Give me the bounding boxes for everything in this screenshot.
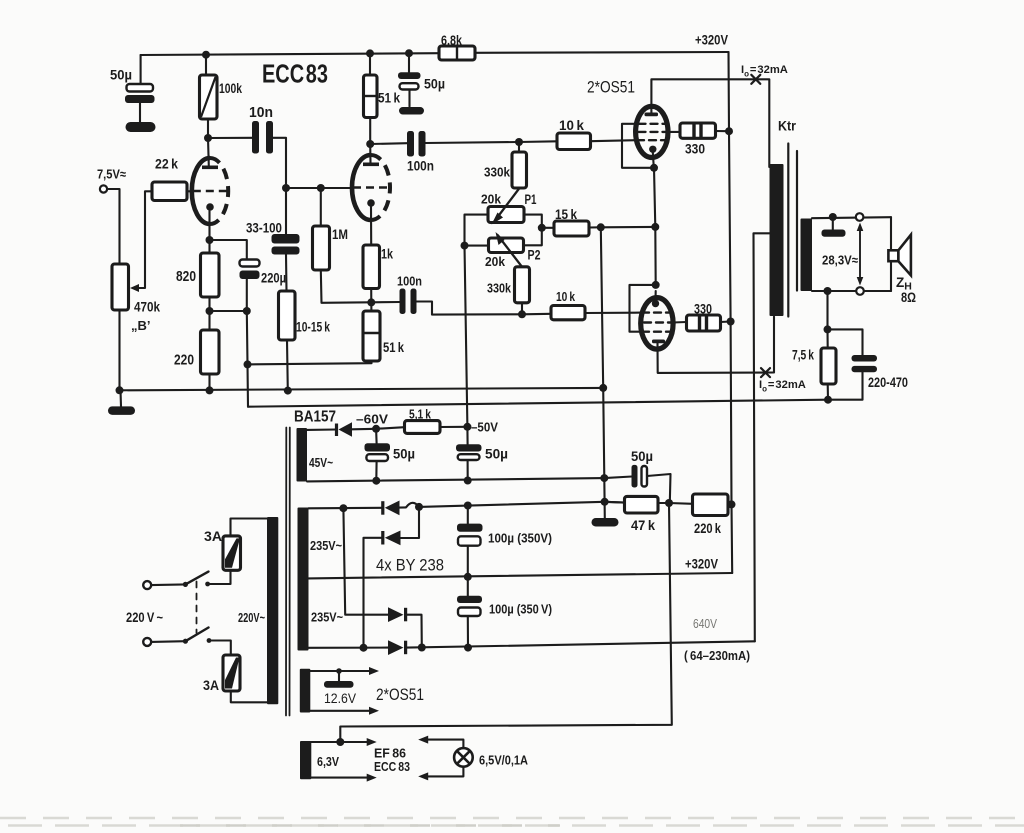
node node P bracket: [461, 242, 469, 250]
mains terminal lower: [143, 638, 151, 646]
svg-text:1k: 1k: [381, 247, 393, 262]
resistor 10-15k: [279, 291, 296, 340]
wire wire bracket to 15k: [542, 227, 554, 229]
diode D1 BY238: [381, 501, 384, 515]
wire wire screen to 330-2: [673, 321, 687, 324]
potentiometer P2 20k: [489, 238, 524, 253]
wire wire 330-2 to supply: [721, 320, 731, 323]
svg-text:330: 330: [685, 141, 705, 157]
svg-text:50µ: 50µ: [631, 448, 653, 464]
diode BA157: [335, 424, 338, 437]
wire wire 220u node down to feedback: [246, 311, 249, 364]
wire wire 330k-2 to node: [521, 303, 523, 315]
capacitor 33-100 plate B: [272, 247, 300, 255]
node node feedback takeoff: [244, 360, 252, 368]
svg-text:6,3V: 6,3V: [317, 754, 339, 769]
node node 220u junction: [243, 307, 251, 315]
wire wire 10k-2 to grid lower OS51: [585, 312, 642, 314]
svg-text:100n: 100n: [397, 275, 422, 289]
wire wire 1k bottom: [370, 289, 372, 303]
wire wire cathode junction down: [654, 227, 657, 285]
wire wire 10k-1 to grid upper OS51: [591, 140, 638, 141]
wire bracket P1-P2 left: [465, 215, 489, 246]
capacitor 100u-2 top plate: [457, 596, 482, 603]
svg-text:47 k: 47 k: [631, 518, 655, 533]
node node -60V: [372, 425, 380, 433]
svg-text:ECC 83: ECC 83: [262, 59, 328, 89]
svg-text:220-470: 220-470: [868, 375, 908, 390]
strap 12,6V bar: [324, 681, 354, 688]
node anode node V2: [366, 140, 374, 148]
lower OS51 beam dash: [642, 331, 671, 333]
secondary top terminal: [856, 213, 864, 221]
node node 15k right: [597, 223, 605, 231]
pot 470k wiper arrow: [130, 284, 139, 292]
node node secondary bottom: [824, 287, 832, 295]
winding 6,3V bar: [300, 741, 311, 779]
wire wire secondary to 7,5k node: [826, 291, 828, 329]
wire secondary top wire: [812, 217, 891, 218]
wire top supply rail left segment: [141, 53, 439, 55]
wire wire input to pot: [107, 189, 119, 265]
svg-text:Ktr: Ktr: [778, 119, 797, 134]
svg-text:330k: 330k: [487, 282, 511, 296]
wire wire upper anode up and right: [651, 79, 769, 167]
wire wire 7,5k top: [826, 329, 828, 348]
wire wire 15k to junction: [589, 226, 601, 228]
svg-text:220V~: 220V~: [238, 611, 265, 625]
mains core line 1: [285, 428, 287, 716]
ground below 50u-2: [399, 107, 424, 115]
node node feedback right: [824, 396, 832, 404]
resistor 15k: [554, 221, 589, 236]
node node 1M top: [317, 184, 325, 192]
wire wire 33-100 to 10-15k: [285, 255, 288, 292]
wire wire cathode V1 down: [208, 211, 210, 240]
pentode upper OS51 envelope: [636, 106, 668, 157]
node node 100u-2 bottom: [464, 644, 472, 652]
svg-text:51 k: 51 k: [383, 340, 404, 355]
node node 6,3V top wire: [336, 738, 344, 746]
wire wire node to 10k-2: [522, 313, 551, 316]
wire wire 220-470 bottom: [828, 372, 863, 399]
node node 47k-220k: [665, 499, 673, 507]
svg-text:4x BY 238: 4x BY 238: [376, 556, 444, 575]
wire wire lamp top: [425, 740, 463, 749]
svg-text:45V~: 45V~: [309, 456, 333, 470]
resistor 330-1: [680, 123, 716, 138]
wire wire 50u to ground: [139, 103, 141, 122]
wire wire 100u-1 top: [467, 506, 469, 524]
node node rail 10-15k: [284, 387, 292, 395]
wire wire -60V to 5,1k: [376, 427, 404, 429]
wire wire 10n to grid V2: [273, 138, 286, 188]
wire wire 45V top to diode: [307, 428, 336, 430]
node grid node V2: [282, 184, 290, 192]
node switch pivot upper: [183, 582, 188, 587]
scan band bottom: [0, 818, 1024, 826]
node node lower cathode: [652, 281, 660, 289]
wire wire top tap to D3: [343, 508, 388, 615]
wire wire 330-1 to supply: [716, 130, 730, 132]
wire wire 12,6V strap stub: [338, 671, 340, 681]
wire wire cathode V2 to 1k: [370, 207, 372, 246]
wire wire 51k to anode node V2: [369, 118, 371, 145]
node node HT top tap: [339, 504, 347, 512]
P2 wiper arrowhead: [496, 232, 505, 245]
resistor 10k-1: [557, 133, 591, 150]
resistor 1k: [363, 245, 380, 289]
capacitor 50u bottom plate: [125, 95, 155, 103]
mains terminal upper: [143, 581, 151, 589]
wire wire D1 to junction: [400, 506, 407, 508]
winding 235V bar: [298, 508, 309, 651]
wire wire screen to 330-1: [667, 131, 680, 133]
capacitor 33-100 plate A: [272, 234, 300, 244]
wire wire 51k lower top: [370, 302, 372, 311]
resistor 100k anode load: [200, 75, 218, 119]
wire wire to speaker bottom: [890, 261, 892, 291]
wire wire +320V vertical drop: [729, 52, 733, 573]
arrow 6,3V bottom: [367, 774, 377, 782]
wire secondary bottom wire: [812, 290, 891, 292]
svg-text:50µ: 50µ: [110, 67, 132, 83]
wire wire 12,6V bottom: [310, 710, 372, 712]
wire wire 1M top: [320, 188, 322, 226]
switch blade lower: [185, 628, 208, 642]
input terminal: [100, 185, 107, 192]
wire wire rail to 100k: [205, 55, 207, 75]
svg-text:10 k: 10 k: [559, 118, 584, 133]
capacitor 10n right plate: [266, 121, 273, 154]
svg-text:22 k: 22 k: [155, 157, 178, 172]
wire bracket P1-P2 right: [524, 215, 542, 246]
wire wire 100k to anode node: [207, 119, 209, 138]
svg-text:10-15 k: 10-15 k: [296, 320, 330, 335]
transformer primary 220V bar: [267, 517, 278, 704]
wire wire input ground stub: [119, 390, 122, 406]
wire wire 220k to +320 drop: [728, 503, 732, 505]
ground power supply: [592, 518, 619, 527]
capacitor 100u-1 top plate: [457, 524, 483, 532]
wire wire 50u-3 bottom: [375, 461, 377, 481]
wire wire primary tap: [754, 233, 770, 641]
capacitor 100n-2 left plate: [400, 289, 406, 315]
node node cathode upper OS51 line: [651, 223, 659, 231]
node node upper cathode: [650, 164, 658, 172]
resistor 220k: [693, 494, 729, 516]
wire wire 100n-1 to 10k line: [426, 142, 520, 143]
wire top supply rail right segment: [475, 51, 729, 54]
upper OS51 control grid dash: [637, 139, 665, 141]
wire wire 50u-5 to node: [647, 474, 671, 503]
node switch contact lower: [207, 638, 212, 643]
node node 330-1 supply: [725, 127, 733, 135]
svg-text:50µ: 50µ: [485, 446, 508, 462]
svg-text:220µ: 220µ: [261, 271, 286, 286]
node node ground HT line: [601, 498, 609, 506]
ground input: [108, 406, 135, 415]
switch blade upper: [185, 572, 208, 585]
node top rail junction above 100k: [202, 51, 210, 59]
svg-text:50µ: 50µ: [393, 446, 415, 462]
wire wire rail to 51k upper: [369, 53, 371, 75]
svg-text:+320V: +320V: [695, 32, 729, 48]
wire wire anode V2 to 100n: [370, 142, 407, 145]
node node 330-2 supply: [727, 318, 735, 326]
resistor 22k grid stopper: [152, 182, 187, 201]
wire lower OS51 beam-cathode bracket: [630, 285, 656, 332]
node node cathode V2 bottom: [367, 298, 375, 306]
node node 45V return 1: [372, 477, 380, 485]
svg-text:100k: 100k: [219, 81, 242, 96]
wire wire junction to cathode line: [601, 226, 656, 229]
capacitor 220u bottom plate: [240, 271, 260, 280]
node node 7,5k top: [824, 325, 832, 333]
svg-text:„B’: „B’: [131, 318, 151, 333]
svg-text:6,5V/0,1A: 6,5V/0,1A: [479, 753, 529, 768]
resistor 5,1k: [405, 421, 441, 434]
wire strap stub: [832, 217, 834, 230]
lamp 6,5V: [454, 748, 473, 767]
wire wire node to 330k-1: [518, 142, 520, 152]
wire wire D3 to bottom line: [407, 615, 422, 648]
wire wire heater feed long: [340, 503, 672, 742]
capacitor 50u top plate: [127, 84, 154, 92]
wire wire 10-15k to ground rail: [286, 340, 289, 391]
potentiometer P1 20k: [488, 207, 524, 223]
wire wire switch to fuse lower: [209, 641, 231, 656]
node node mid line cap: [464, 573, 472, 581]
node node 12,6V tap: [336, 668, 342, 674]
node cathode node V1: [206, 236, 214, 244]
capacitor 50u-2 bottom plate: [400, 83, 419, 89]
capacitor 100n-1 left plate: [407, 131, 414, 157]
wire wire feedback node crossing rail: [246, 364, 249, 406]
capacitor 220u top plate: [240, 260, 260, 267]
svg-text:6,8k: 6,8k: [441, 33, 462, 48]
wire wire HT bottom line: [309, 647, 389, 649]
node node HT bottom tap: [360, 644, 368, 652]
wire wire rectifier output line: [419, 502, 625, 507]
wire wire anode node to tube V2: [369, 144, 371, 163]
svg-text:3A: 3A: [204, 529, 222, 544]
pentode lower OS51 envelope: [641, 298, 673, 350]
wire wire 100u-1 bottom: [467, 546, 469, 577]
wire wire rail to 50u-2: [408, 53, 410, 72]
wire wire diode to -60V node: [352, 428, 376, 431]
svg-text:5,1 k: 5,1 k: [409, 407, 432, 422]
wire wire anode node to tube V1: [207, 138, 210, 166]
capacitor 50u-3 bottom plate: [366, 454, 388, 461]
capacitor 220-470 top plate: [852, 355, 878, 362]
mains core line 2: [289, 428, 291, 716]
node node ground bias line: [600, 474, 608, 482]
svg-text:10 k: 10 k: [556, 290, 575, 304]
wire wire P bracket to -50V: [465, 246, 468, 427]
capacitor 100u-2 bottom plate: [458, 608, 481, 617]
arrow lamp top: [418, 736, 428, 744]
node top rail junction above 51k: [366, 49, 374, 57]
resistor 47k: [625, 496, 659, 513]
wire wire 1M bottom: [321, 270, 400, 303]
speaker: [888, 235, 911, 276]
node node -50V: [463, 423, 471, 431]
svg-text:330: 330: [694, 302, 712, 317]
diode D3 BY238: [388, 607, 404, 622]
wire wire 6,3V bottom: [311, 777, 369, 779]
wire wire 640V line: [407, 641, 755, 647]
capacitor 50u-5 right plate: [642, 466, 648, 487]
arrow 12,6V bottom: [369, 707, 379, 715]
wire wire terminal to switch lower: [151, 640, 185, 643]
svg-text:1M: 1M: [332, 227, 348, 242]
lower OS51 cathode dot: [652, 300, 659, 307]
capacitor 220-470 bottom plate: [852, 366, 878, 372]
node node rectifier plus: [415, 503, 423, 511]
wire wire 220u down: [246, 279, 248, 311]
wire hop arc: [406, 503, 419, 508]
secondary bottom terminal: [856, 287, 864, 295]
triode V2 ECC83b: [352, 155, 390, 220]
upper OS51 anode bar: [645, 113, 659, 117]
wire wire node to 220k: [669, 502, 693, 505]
resistor 820: [201, 253, 220, 297]
wire upper OS51 cathode lead: [653, 152, 654, 168]
node node rail input: [116, 386, 124, 394]
svg-text:640V: 640V: [693, 617, 718, 631]
svg-text:100µ (350 V): 100µ (350 V): [489, 602, 552, 617]
node anode node V1: [204, 134, 212, 142]
wire wire rail corner to 50u cap: [140, 55, 142, 84]
triode V1 ECC83a: [192, 158, 228, 224]
svg-text:12.6V: 12.6V: [324, 691, 356, 706]
wire wire node820 to node220u: [210, 310, 247, 312]
wire wire 220 to ground rail: [208, 374, 210, 390]
transformer core line 1: [787, 144, 789, 317]
node switch contact upper: [205, 582, 210, 587]
diode D4 BY238: [388, 640, 404, 655]
resistor 6,8k: [439, 46, 475, 60]
wire wire anode to 10n: [208, 137, 252, 139]
wire wire -50V to 50u-4: [466, 427, 468, 444]
resistor 330-2: [687, 315, 721, 331]
node top rail junction above 50u cap: [405, 49, 413, 57]
capacitor 50u-4 top plate: [456, 444, 482, 451]
resistor 330k-1: [512, 152, 527, 188]
svg-text:235V~: 235V~: [311, 611, 343, 625]
lower OS51 anode bar: [652, 340, 665, 344]
svg-text:7,5 k: 7,5 k: [792, 348, 814, 363]
node node 100u-1 top: [464, 502, 472, 510]
lower OS51 screen dash: [644, 321, 673, 323]
node node 15k left: [538, 224, 546, 232]
svg-text:51 k: 51 k: [378, 91, 400, 106]
arrow 12,6V top: [369, 667, 379, 675]
svg-text:15 k: 15 k: [555, 207, 577, 222]
strap bar: [822, 230, 846, 237]
wire wire D2 branch: [401, 507, 420, 538]
resistor 7,5k: [821, 348, 836, 384]
node node 45V return 2: [464, 477, 472, 485]
svg-text:50µ: 50µ: [424, 76, 445, 92]
wire wire fuse upper to primary: [231, 519, 268, 536]
resistor 10k-2: [551, 306, 585, 320]
arrow lamp bottom: [418, 772, 428, 780]
wire wire 50u-5 bypass: [604, 477, 632, 479]
svg-text:100n: 100n: [407, 159, 434, 174]
svg-text:7,5V≈: 7,5V≈: [97, 167, 126, 182]
diode D2 BY238: [381, 531, 384, 545]
svg-text:BA157: BA157: [294, 409, 336, 426]
fuse 3A lower: [223, 655, 240, 691]
svg-text:100µ (350V): 100µ (350V): [488, 531, 552, 546]
P1 wiper arrowhead: [492, 213, 504, 225]
wire wire terminal to switch upper: [151, 583, 185, 586]
resistor 51k upper: [364, 75, 378, 118]
wire wire pot to ground rail: [118, 310, 120, 390]
switch link dashed: [196, 582, 198, 634]
voltage arrow 28,3V: [859, 228, 861, 280]
wire wire 7,5k bottom: [827, 384, 829, 400]
svg-text:235V~: 235V~: [310, 539, 342, 553]
node node 640V line: [418, 644, 426, 652]
potentiometer 470k: [112, 264, 129, 310]
wire lower OS51 cathode lead: [654, 291, 656, 300]
svg-text:2*OS51: 2*OS51: [376, 686, 424, 704]
wire wire 820 to node: [208, 297, 210, 330]
resistor 330k-2: [515, 267, 530, 303]
wire wire 100u-2 bottom: [467, 616, 469, 648]
svg-text:470k: 470k: [134, 300, 160, 315]
winding 12,6V bar: [300, 669, 311, 713]
ground below 50u: [126, 122, 156, 132]
node node rail right end: [599, 384, 607, 392]
wire wire cathode node to 220u: [210, 240, 247, 260]
pot P1 wiper lead: [494, 188, 520, 222]
upper OS51 cathode dot: [649, 146, 656, 153]
svg-text:220 V ~: 220 V ~: [126, 610, 163, 625]
capacitor 100n-1 right plate: [419, 131, 426, 157]
lower OS51 grid dash: [642, 311, 671, 313]
capacitor 50u-3 top plate: [365, 443, 391, 451]
svg-text:8Ω: 8Ω: [901, 290, 916, 305]
capacitor 50u-2 top plate: [398, 72, 421, 79]
wire wire to 10k-1: [519, 140, 557, 143]
resistor 51k lower: [363, 311, 380, 361]
wire wire to 51k cathode second stage: [248, 353, 372, 364]
svg-text:2*OS51: 2*OS51: [587, 78, 635, 97]
node node 820-220: [206, 307, 214, 315]
node node 330k-2 bottom: [518, 310, 526, 318]
wire wire D2 to bottom line: [364, 538, 382, 648]
svg-text:20k: 20k: [485, 254, 506, 269]
wire wire 22k to grid: [187, 190, 193, 192]
wire wire 45V return line: [307, 478, 604, 481]
current mark Io lower: [761, 368, 770, 377]
wire wire to speaker top: [890, 217, 892, 250]
pot P2 wiper lead: [498, 235, 523, 267]
svg-text:220 k: 220 k: [694, 521, 721, 536]
node node 330k-1 top: [515, 138, 523, 146]
fuse 3A upper: [223, 536, 241, 570]
svg-text:–50V: –50V: [471, 420, 498, 435]
transformer core line 2: [796, 151, 798, 291]
wire wire wiper to 22k: [138, 191, 152, 288]
transformer secondary winding bar: [801, 219, 813, 292]
svg-text:+320V: +320V: [685, 556, 719, 572]
wire wire +320V line: [309, 573, 733, 578]
